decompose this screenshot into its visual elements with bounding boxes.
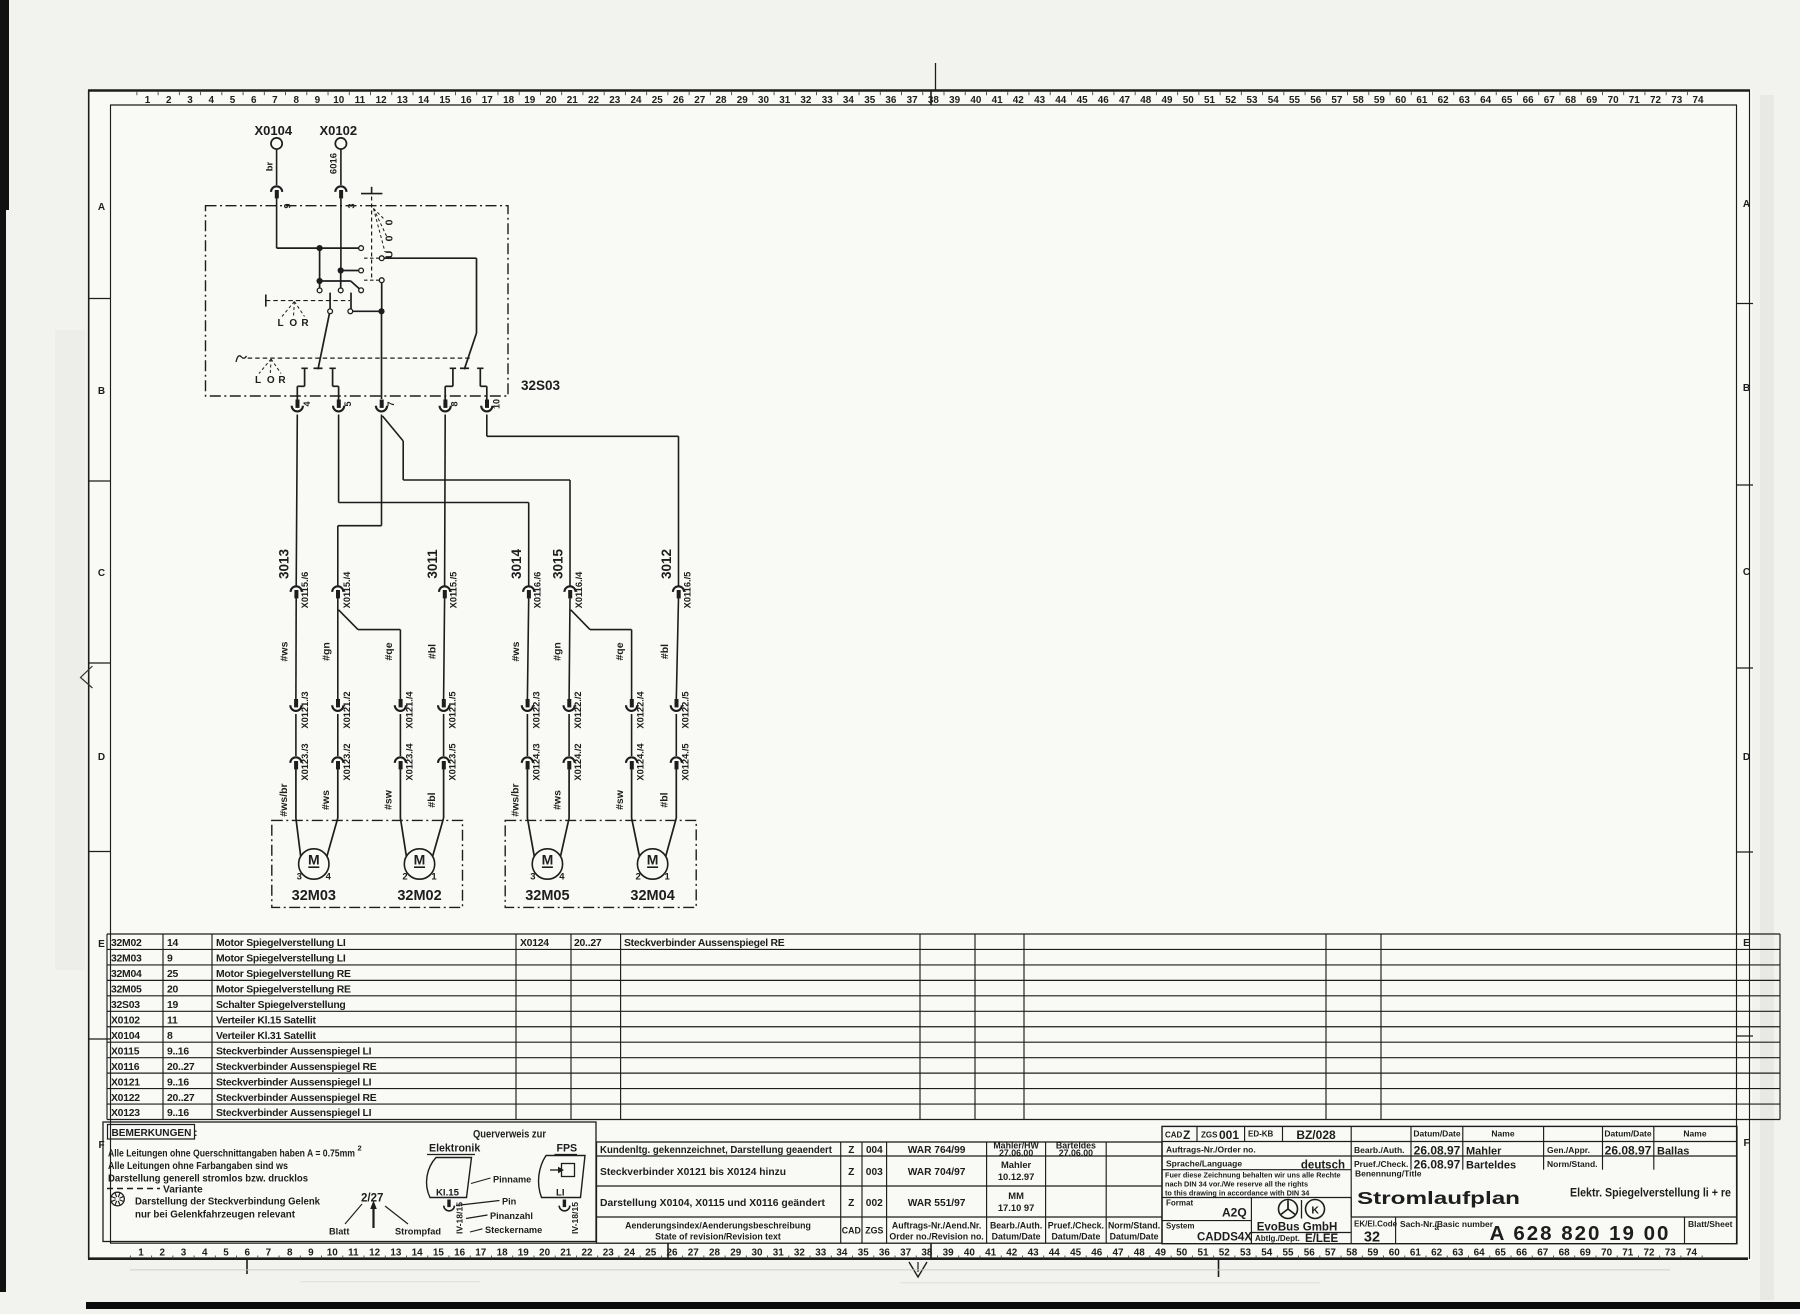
- svg-text:#bl: #bl: [659, 792, 671, 807]
- node: junction X0102 wire: [338, 267, 344, 273]
- svg-text:20..27: 20..27: [574, 938, 602, 949]
- svg-text:Stromlaufplan: Stromlaufplan: [1357, 1188, 1520, 1208]
- row letters right A-F: [1743, 199, 1750, 1149]
- svg-text:5: 5: [343, 401, 353, 406]
- svg-text:3013: 3013: [277, 548, 292, 579]
- wire 3013 to X0121./3: [295, 598, 297, 699]
- svg-text:46: 46: [1091, 1248, 1102, 1259]
- svg-text:6: 6: [244, 1248, 250, 1259]
- svg-text:C: C: [1743, 567, 1750, 578]
- svg-text:R: R: [278, 375, 286, 386]
- svg-text:64: 64: [1474, 1248, 1485, 1259]
- svg-text:28: 28: [716, 95, 727, 106]
- wire X0121./2 to X0123./2: [337, 714, 339, 756]
- svg-text:2: 2: [635, 872, 640, 883]
- wire into 32M02 pin 1: [443, 769, 445, 818]
- svg-text:41: 41: [985, 1248, 996, 1259]
- connector X0123./3: [290, 757, 301, 763]
- svg-text:10: 10: [333, 95, 344, 106]
- svg-text:6016: 6016: [329, 153, 340, 174]
- wire X0122./4 to X0124./4: [631, 714, 633, 756]
- svg-text:X0121./5: X0121./5: [448, 691, 458, 728]
- motor 32M02: [404, 849, 434, 879]
- svg-text:X0115./6: X0115./6: [300, 572, 310, 609]
- FPS pin symbol: [563, 1200, 566, 1208]
- svg-text:20: 20: [546, 95, 557, 106]
- callout Pinname: [471, 1178, 491, 1184]
- svg-text:X0116: X0116: [111, 1062, 140, 1073]
- svg-text:21: 21: [567, 95, 578, 106]
- svg-text:71: 71: [1622, 1248, 1633, 1259]
- svg-text:X0123./4: X0123./4: [404, 743, 414, 781]
- svg-text:Abtlg./Dept.: Abtlg./Dept.: [1255, 1234, 1300, 1243]
- svg-text:32S03: 32S03: [111, 1000, 140, 1011]
- svg-text:29: 29: [737, 95, 748, 106]
- svg-text:Pruef./Check.: Pruef./Check.: [1048, 1221, 1104, 1231]
- svg-text:WAR 704/97: WAR 704/97: [908, 1167, 966, 1178]
- wire into 32M03 pin 3: [295, 769, 297, 818]
- scan edge: bottom black band: [86, 1302, 1800, 1309]
- svg-text:Datum/Date: Datum/Date: [1051, 1232, 1100, 1242]
- svg-text:40: 40: [970, 95, 981, 106]
- svg-text:Norm/Stand.: Norm/Stand.: [1108, 1221, 1160, 1231]
- svg-text:Bearb./Auth.: Bearb./Auth.: [990, 1221, 1042, 1231]
- svg-text:4: 4: [326, 872, 332, 883]
- connector 32S03 pin 8: [443, 400, 447, 408]
- svg-text:46: 46: [1098, 95, 1109, 106]
- svg-text:Auftrags-Nr./Order no.: Auftrags-Nr./Order no.: [1166, 1145, 1256, 1155]
- svg-text:4: 4: [208, 95, 214, 106]
- svg-text:61: 61: [1410, 1248, 1421, 1259]
- svg-text:16: 16: [454, 1248, 465, 1259]
- Bemerkungen notes box: [103, 1122, 596, 1242]
- connector 32S03 pin 5: [337, 400, 341, 408]
- svg-text:7: 7: [386, 401, 396, 406]
- svg-text:3011: 3011: [425, 549, 440, 579]
- connector X0123./5: [438, 757, 449, 763]
- svg-text:Barteldes: Barteldes: [1466, 1160, 1516, 1172]
- svg-text:10: 10: [327, 1248, 338, 1259]
- svg-text:32M05: 32M05: [111, 985, 142, 996]
- left margin fold arrow: [81, 666, 93, 688]
- svg-text:27.06.00: 27.06.00: [999, 1148, 1033, 1158]
- svg-text:Blatt: Blatt: [329, 1227, 349, 1237]
- svg-text:19: 19: [167, 1000, 179, 1011]
- top ruler column numbers 1-74: [145, 95, 1704, 106]
- Elektronik pin symbol: [447, 1200, 450, 1208]
- svg-text:X0121./4: X0121./4: [404, 691, 414, 729]
- svg-text:20..27: 20..27: [167, 1093, 195, 1104]
- svg-text:M: M: [308, 852, 320, 868]
- contact d2: [348, 309, 353, 314]
- svg-text:73: 73: [1665, 1248, 1676, 1259]
- svg-text:32: 32: [794, 1248, 805, 1259]
- svg-text:WAR 764/99: WAR 764/99: [908, 1145, 966, 1156]
- svg-text:22: 22: [588, 95, 599, 106]
- svg-text:31: 31: [779, 95, 790, 106]
- svg-text:B: B: [98, 386, 105, 397]
- svg-text:8: 8: [167, 1031, 173, 1042]
- svg-text:43: 43: [1028, 1248, 1039, 1259]
- svg-text:Steckverbinder Aussenspiegel L: Steckverbinder Aussenspiegel LI: [216, 1046, 372, 1057]
- connector X0121./5: [442, 699, 446, 707]
- connector X0116./5: [673, 586, 684, 592]
- svg-text:44: 44: [1049, 1248, 1060, 1259]
- svg-text:32M02: 32M02: [397, 888, 441, 904]
- node: junction pin9 wire: [317, 245, 323, 251]
- svg-text:17: 17: [482, 95, 493, 106]
- svg-text:Pin: Pin: [502, 1197, 517, 1207]
- svg-text:4: 4: [202, 1248, 208, 1259]
- svg-text:X0121./3: X0121./3: [300, 691, 310, 728]
- svg-text:56: 56: [1310, 95, 1321, 106]
- svg-text:3: 3: [181, 1248, 187, 1259]
- wire into 32M05 pin 3: [526, 769, 528, 818]
- svg-text:FPS: FPS: [557, 1143, 578, 1155]
- svg-text:Benennung/Title: Benennung/Title: [1355, 1169, 1422, 1179]
- svg-text:Aenderungsindex/Aenderungsbesc: Aenderungsindex/Aenderungsbeschreibung: [625, 1221, 811, 1231]
- svg-text:Datum/Date: Datum/Date: [1413, 1129, 1461, 1139]
- svg-text:25: 25: [645, 1248, 656, 1259]
- svg-text:Ballas: Ballas: [1657, 1146, 1689, 1158]
- svg-text:X0116./4: X0116./4: [574, 571, 584, 609]
- svg-text:45: 45: [1070, 1248, 1081, 1259]
- svg-text:5: 5: [223, 1248, 229, 1259]
- svg-text:EK/El.Code: EK/El.Code: [1354, 1220, 1398, 1229]
- svg-text:X0124./3: X0124./3: [531, 743, 541, 780]
- svg-text:20..27: 20..27: [167, 1062, 195, 1073]
- svg-text:Auftrags-Nr./Aend.Nr.: Auftrags-Nr./Aend.Nr.: [892, 1221, 981, 1231]
- svg-text:X0123./3: X0123./3: [300, 743, 310, 780]
- contact b1: [317, 288, 322, 293]
- bottom fold tick right: [1218, 1259, 1220, 1277]
- Variante dashed sample: [107, 1188, 160, 1190]
- svg-text:44: 44: [1055, 95, 1066, 106]
- wire X0102 node down to contact b2: [340, 271, 342, 289]
- svg-text:BEMERKUNGEN :: BEMERKUNGEN :: [112, 1128, 198, 1139]
- svg-text:L: L: [255, 375, 261, 386]
- svg-text:X0115./4: X0115./4: [342, 571, 352, 609]
- connector X0122./2: [567, 699, 571, 707]
- svg-text:Alle Leitungen ohne Farbangabe: Alle Leitungen ohne Farbangaben sind ws: [108, 1161, 288, 1172]
- svg-text:11: 11: [348, 1248, 359, 1259]
- connector 32S03 pin 10: [485, 400, 489, 408]
- svg-text:X0123./2: X0123./2: [342, 743, 352, 780]
- svg-text:Steckverbinder Aussenspiegel R: Steckverbinder Aussenspiegel RE: [216, 1093, 377, 1104]
- svg-text:Gen./Appr.: Gen./Appr.: [1547, 1145, 1590, 1155]
- wire into 32M03 pin 4: [337, 769, 339, 818]
- svg-text:X0102: X0102: [320, 123, 358, 138]
- connector 32S03 pin 7: [380, 400, 384, 408]
- node: pin 7 junction: [378, 308, 384, 314]
- wire pin 7 right branch to column 3015: [383, 416, 404, 441]
- svg-text:X0102: X0102: [111, 1016, 140, 1027]
- connector 32S03 pin 4: [296, 400, 300, 408]
- top fold mark: [935, 63, 937, 90]
- bottom ruler division ticks: [667, 1243, 669, 1259]
- svg-text:62: 62: [1431, 1248, 1442, 1259]
- connector X0121./2: [336, 699, 340, 707]
- svg-text:71: 71: [1629, 95, 1640, 106]
- svg-text:Darstellung X0104, X0115 und X: Darstellung X0104, X0115 und X0116 geänd…: [600, 1198, 826, 1209]
- svg-text:O: O: [289, 318, 297, 329]
- node: junction left lower: [317, 278, 323, 284]
- svg-text:10.12.97: 10.12.97: [998, 1171, 1035, 1182]
- svg-text:34: 34: [836, 1248, 847, 1259]
- svg-text:A: A: [98, 202, 105, 213]
- connector X0124./2: [564, 757, 575, 763]
- wire junction down to contact b1: [319, 281, 321, 288]
- switch position labels U 0 0: [374, 209, 386, 221]
- connector X0122./4: [630, 699, 634, 707]
- connector X0104 pin 9: [271, 186, 282, 192]
- svg-text:26.08.97: 26.08.97: [1414, 1144, 1461, 1158]
- svg-text:Z: Z: [848, 1167, 854, 1178]
- svg-text:54: 54: [1268, 95, 1279, 106]
- svg-text:Blatt/Sheet: Blatt/Sheet: [1688, 1219, 1733, 1229]
- svg-text:32M02: 32M02: [111, 938, 142, 949]
- svg-text:X0104: X0104: [255, 123, 293, 138]
- svg-text:33: 33: [822, 95, 833, 106]
- svg-text:Strompfad: Strompfad: [395, 1227, 441, 1237]
- svg-text:#qe: #qe: [383, 642, 395, 660]
- svg-text:25: 25: [652, 95, 663, 106]
- svg-text:4: 4: [559, 872, 565, 883]
- svg-text:X0116./5: X0116./5: [683, 572, 693, 609]
- svg-text:65: 65: [1501, 95, 1512, 106]
- svg-text:Name: Name: [1683, 1129, 1706, 1139]
- wire X0121./3 to X0123./3: [295, 714, 297, 756]
- wire contact c1 to right switch: [384, 257, 476, 259]
- svg-text:#ws/br: #ws/br: [278, 783, 290, 816]
- svg-text:A: A: [1743, 199, 1750, 210]
- wire 3012 to X0122./5: [676, 598, 678, 699]
- svg-text:32: 32: [800, 95, 811, 106]
- svg-text:Sach-Nr./Basic number: Sach-Nr./Basic number: [1400, 1219, 1494, 1229]
- svg-text:14: 14: [167, 938, 179, 949]
- svg-text:20: 20: [539, 1248, 550, 1259]
- svg-text:#ws: #ws: [279, 641, 291, 661]
- svg-text:49: 49: [1162, 95, 1173, 106]
- svg-text:L: L: [277, 318, 283, 329]
- svg-text:CAD: CAD: [842, 1226, 861, 1236]
- svg-text:19: 19: [518, 1248, 529, 1259]
- svg-text:37: 37: [900, 1248, 911, 1259]
- svg-text:E: E: [1743, 938, 1750, 949]
- svg-text:#gn: #gn: [320, 642, 332, 661]
- wire X0122./3 to X0124./3: [526, 714, 528, 756]
- svg-text:32M04: 32M04: [630, 888, 674, 904]
- svg-text:X0121: X0121: [111, 1077, 140, 1088]
- svg-text:4: 4: [302, 401, 312, 406]
- svg-text:#qe: #qe: [614, 642, 626, 660]
- svg-text:9: 9: [167, 954, 173, 965]
- wire node down: [319, 248, 321, 281]
- left switch arm: [318, 314, 329, 370]
- svg-text:61: 61: [1416, 95, 1427, 106]
- svg-text:Datum/Date: Datum/Date: [1110, 1232, 1159, 1242]
- svg-text:8: 8: [287, 1248, 293, 1259]
- svg-text:O: O: [267, 375, 275, 386]
- svg-text:32: 32: [1364, 1230, 1380, 1246]
- contact c2 (pin7 feed): [379, 278, 384, 283]
- wire X0122./5 to X0124./5: [675, 714, 677, 756]
- svg-text:16: 16: [461, 95, 472, 106]
- connector X0124./5: [671, 757, 682, 763]
- svg-text:Schalter Spiegelverstellung: Schalter Spiegelverstellung: [216, 1000, 346, 1011]
- svg-text:27: 27: [694, 95, 705, 106]
- svg-text:12: 12: [376, 95, 387, 106]
- pin 8 lead: [450, 367, 456, 369]
- pin 4 lead: [301, 367, 307, 369]
- bottom ruler column numbers 1-74: [138, 1248, 1697, 1259]
- svg-text:X0121./2: X0121./2: [342, 691, 352, 728]
- svg-text:Kundenltg. gekennzeichnet, Dar: Kundenltg. gekennzeichnet, Darstellung g…: [600, 1145, 833, 1156]
- svg-text:Datum/Date: Datum/Date: [992, 1232, 1041, 1242]
- svg-text:6: 6: [251, 95, 257, 106]
- row letters left A-F: [98, 202, 105, 1151]
- row boundary ticks left: [89, 298, 111, 300]
- svg-text:2: 2: [166, 95, 172, 106]
- svg-text:WAR 551/97: WAR 551/97: [908, 1198, 966, 1209]
- svg-text:001: 001: [1219, 1128, 1239, 1142]
- svg-text:34: 34: [843, 95, 854, 106]
- svg-text:67: 67: [1537, 1248, 1548, 1259]
- svg-text:Motor Spiegelverstellung LI: Motor Spiegelverstellung LI: [216, 954, 346, 965]
- connector X0124./4: [626, 757, 637, 763]
- svg-text:31: 31: [773, 1248, 784, 1259]
- drawing frame outer border: [88, 89, 1750, 92]
- svg-text:65: 65: [1495, 1248, 1506, 1259]
- wire pin 10 to column 3012: [486, 415, 488, 437]
- svg-text:8: 8: [450, 401, 460, 406]
- connector X0116./6: [523, 586, 534, 592]
- wire X0116./4 split to #gn and #qe: [568, 598, 571, 699]
- svg-text:X0124./2: X0124./2: [573, 743, 583, 780]
- wire X0121./4 to X0123./4: [399, 714, 401, 756]
- svg-text:72: 72: [1650, 95, 1661, 106]
- svg-text:15: 15: [439, 95, 450, 106]
- svg-text:42: 42: [1013, 95, 1024, 106]
- callout Steckername: [470, 1229, 483, 1232]
- wire node to contact a2: [341, 270, 359, 272]
- wire pin7 down: [381, 311, 383, 399]
- svg-text:002: 002: [866, 1198, 883, 1209]
- svg-text:23: 23: [609, 95, 620, 106]
- title block: [1162, 1126, 1737, 1243]
- svg-text:Z: Z: [848, 1145, 854, 1156]
- wire X0104 pin9 to node: [277, 247, 320, 249]
- svg-text:Darstellung generell stromlos: Darstellung generell stromlos bzw. druck…: [108, 1174, 308, 1185]
- svg-text:#sw: #sw: [383, 789, 395, 810]
- svg-text:57: 57: [1331, 95, 1342, 106]
- svg-text:C: C: [98, 568, 105, 579]
- motor 32M03: [299, 849, 329, 879]
- svg-text:35: 35: [858, 1248, 869, 1259]
- switch actuator link (mechanical T bar): [371, 187, 373, 194]
- svg-text:54: 54: [1261, 1248, 1272, 1259]
- svg-text:#bl: #bl: [659, 644, 671, 659]
- motor 32M05: [532, 849, 562, 879]
- connector X0124./3: [522, 757, 533, 763]
- svg-text:69: 69: [1586, 95, 1597, 106]
- connector X0115./4: [332, 586, 343, 592]
- svg-text:53: 53: [1240, 1248, 1251, 1259]
- svg-text:2: 2: [159, 1248, 165, 1259]
- svg-text:F: F: [1743, 1138, 1749, 1149]
- svg-text:57: 57: [1325, 1248, 1336, 1259]
- svg-text:X0122: X0122: [111, 1093, 140, 1104]
- wire pin 5 to column 3014: [338, 415, 340, 503]
- svg-text:14: 14: [412, 1248, 423, 1259]
- svg-text:50: 50: [1176, 1248, 1187, 1259]
- svg-text:24: 24: [624, 1248, 635, 1259]
- switch position indicator L O R (upper): [265, 295, 267, 307]
- connector X0116./4: [564, 586, 575, 592]
- svg-text:20: 20: [167, 985, 179, 996]
- svg-text:11: 11: [355, 95, 366, 106]
- wire 6016 from X0102: [340, 149, 342, 185]
- wire pin 7 left branch to connector X0115./4: [381, 415, 383, 526]
- svg-text:66: 66: [1523, 95, 1534, 106]
- svg-text:nur bei Gelenkfahrzeugen relev: nur bei Gelenkfahrzeugen relevant: [135, 1210, 296, 1221]
- svg-text:32M05: 32M05: [525, 888, 569, 904]
- wire X0121./5 to X0123./5: [443, 714, 445, 756]
- svg-text:MM: MM: [1008, 1190, 1024, 1201]
- svg-text:47: 47: [1113, 1248, 1124, 1259]
- connector X0102 pin 3: [335, 186, 346, 192]
- wire contact c2 down to node: [381, 283, 383, 312]
- svg-text:Pinname: Pinname: [493, 1175, 531, 1185]
- svg-text:27.06.00: 27.06.00: [1059, 1148, 1093, 1158]
- wire br from X0104: [276, 149, 278, 185]
- svg-text:13: 13: [397, 95, 408, 106]
- svg-text:9: 9: [308, 1248, 314, 1259]
- svg-text:12: 12: [369, 1248, 380, 1259]
- svg-text:9..16: 9..16: [167, 1108, 189, 1119]
- mirror unit box left (dash-dot): [272, 820, 463, 907]
- svg-text:26.08.97: 26.08.97: [1605, 1144, 1652, 1158]
- connector X0121./4: [399, 699, 403, 707]
- svg-text:2: 2: [402, 872, 407, 883]
- svg-text:LI: LI: [556, 1188, 565, 1199]
- svg-text:Datum/Date: Datum/Date: [1604, 1129, 1652, 1139]
- svg-text:9..16: 9..16: [167, 1077, 189, 1088]
- Gelenk symbol: [111, 1192, 125, 1206]
- svg-text:41: 41: [992, 95, 1003, 106]
- svg-text:Mahler: Mahler: [1466, 1146, 1502, 1158]
- svg-text:48: 48: [1134, 1248, 1145, 1259]
- svg-text:39: 39: [943, 1248, 954, 1259]
- connector X0121./3: [294, 699, 298, 707]
- svg-text:X0116./6: X0116./6: [533, 572, 543, 609]
- svg-text:X0115./5: X0115./5: [449, 572, 459, 609]
- svg-text:58: 58: [1353, 95, 1364, 106]
- row boundary ticks right: [1737, 303, 1754, 305]
- svg-text:Sprache/Language: Sprache/Language: [1166, 1159, 1242, 1169]
- svg-text:#sw: #sw: [614, 789, 626, 810]
- svg-text:14: 14: [418, 95, 429, 106]
- svg-text:32M03: 32M03: [292, 888, 336, 904]
- svg-text:Alle Leitungen ohne Querschnit: Alle Leitungen ohne Querschnittangaben h…: [108, 1149, 355, 1160]
- svg-text:49: 49: [1155, 1248, 1166, 1259]
- svg-text:56: 56: [1304, 1248, 1315, 1259]
- svg-text:52: 52: [1225, 95, 1236, 106]
- svg-text:64: 64: [1480, 95, 1491, 106]
- component list table: [107, 933, 1780, 935]
- bottom fold tick left: [246, 1259, 248, 1274]
- svg-text:5: 5: [230, 95, 236, 106]
